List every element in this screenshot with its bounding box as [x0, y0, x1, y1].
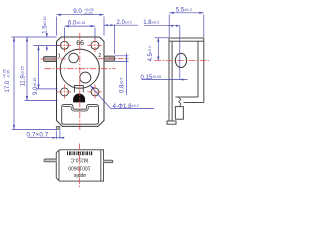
dim 5.5 arrows: [169, 12, 204, 14]
right lug terminal 2: [104, 56, 115, 61]
bottom view right pin: [104, 160, 113, 163]
centerline vertical front view: [79, 33, 81, 131]
dim 2.0 arrows: [104, 24, 115, 26]
bottom view centerline: [79, 144, 81, 189]
dim 1.8 extension line long: [179, 26, 181, 79]
dim 11.9 line: [26, 37, 28, 101]
side shaft hole ellipse: [175, 53, 186, 67]
dim 0.8 extension lines: [115, 56, 129, 62]
svg-text:9.0: 9.0: [73, 8, 82, 15]
top extension line at body top: [12, 36, 57, 38]
dim 2.0 extension line at lug tip: [114, 25, 116, 55]
extension line at crown top: [25, 100, 58, 102]
dim 0.15 arrow: [180, 79, 184, 81]
small circle B: [80, 72, 91, 83]
dim 2.0 line: [104, 24, 138, 26]
side bracket column: [169, 41, 172, 121]
extension line at pin bottom: [12, 128, 56, 130]
dim 5.5 line: [169, 12, 204, 14]
hole top-left: [61, 41, 69, 49]
dim 0.8 arrows: [126, 56, 128, 62]
centerline left lug: [41, 58, 67, 60]
leader line to holes: [90, 86, 154, 109]
extension line at hole row bottom: [36, 88, 58, 90]
dim 17.0 arrows: [13, 37, 15, 129]
dim 0.7 leader line: [28, 137, 65, 139]
centerline horizontal front view: [45, 68, 116, 70]
bracket crown: [62, 105, 99, 125]
wiper window rect: [74, 85, 83, 92]
body outline: [57, 37, 105, 126]
side body inner edge: [175, 41, 198, 97]
side bracket foot: [167, 121, 176, 124]
side terminal zigzag: [178, 97, 181, 107]
dim 6.0 arrows: [65, 25, 96, 27]
hole bottom-left: [61, 88, 69, 96]
bracket crown inner line: [63, 107, 98, 112]
svg-text:17.0: 17.0: [5, 80, 11, 92]
svg-text:-0.25: -0.25: [84, 11, 93, 15]
hole crosshair bottom-left: [57, 91, 72, 93]
svg-text:2: 2: [98, 53, 101, 59]
dim 0.8 line: [126, 53, 128, 95]
dim 4.5 arrows: [157, 38, 159, 61]
dim 9.0v arrows: [37, 46, 39, 89]
bottom view barcode row: [67, 151, 92, 155]
hole top-right: [91, 41, 99, 49]
svg-text:0.7×0.7: 0.7×0.7: [27, 133, 49, 139]
dim 0.15 line: [142, 79, 188, 81]
dim 9.0 line: [57, 14, 105, 16]
svg-text:MJ10-C: MJ10-C: [70, 157, 88, 163]
rotor big circle: [60, 49, 99, 88]
side top cap: [169, 38, 204, 41]
dim 1.5 line: [46, 33, 48, 51]
dim 9.0 extension lines: [57, 17, 105, 36]
bottom view cap lines: [59, 150, 101, 181]
centerline right lug: [98, 58, 129, 60]
hole crosshair bottom-right: [88, 91, 103, 93]
svg-text:1.8±0.2: 1.8±0.2: [143, 19, 160, 26]
dim 1.8 line: [144, 25, 180, 27]
svg-text:4.5±0.2: 4.5±0.2: [148, 46, 154, 61]
dim 17.0 line: [13, 37, 15, 129]
extension line at hole row top: [34, 45, 60, 47]
pin 0.7 square below body: [56, 126, 60, 129]
dim 0.7 extension lines: [56, 131, 60, 140]
side body outer edge: [183, 41, 203, 102]
svg-text:1.5±0.15: 1.5±0.15: [43, 16, 49, 33]
dim 1.8 arrows: [169, 25, 180, 27]
hole bottom-right: [91, 88, 99, 96]
dim 4.5 line: [157, 38, 159, 61]
svg-text:6.0±0.15: 6.0±0.15: [68, 21, 85, 27]
small circle A: [69, 53, 79, 63]
dim 9.0v line: [38, 46, 40, 89]
side terminal: [175, 107, 183, 120]
dim 5.5 extension lines: [169, 15, 204, 38]
svg-text:1: 1: [58, 53, 61, 59]
dim 4.5 extension line: [155, 37, 170, 39]
hole crosshair top-right: [88, 44, 103, 46]
dim 0.7 arrows: [53, 137, 64, 139]
wiper black blob: [74, 94, 85, 102]
leader arrow: [90, 86, 94, 89]
dim 6.0 line: [65, 25, 96, 27]
svg-text:0.8±0.5: 0.8±0.5: [120, 78, 126, 93]
hole crosshair top-left: [57, 38, 103, 100]
svg-text:11.9±0.15: 11.9±0.15: [21, 66, 27, 86]
bottom view left pin: [44, 159, 56, 162]
dim 11.9 arrows: [26, 37, 28, 101]
bottom view body: [56, 150, 103, 181]
left lug terminal 1: [43, 57, 56, 62]
dim 6.0 extension lines: [65, 28, 96, 40]
svg-text:-0.35: -0.35: [6, 70, 10, 78]
dim 9.0 arrows: [57, 14, 105, 16]
side centerline: [155, 60, 210, 62]
dim 1.5 arrows: [46, 33, 48, 49]
